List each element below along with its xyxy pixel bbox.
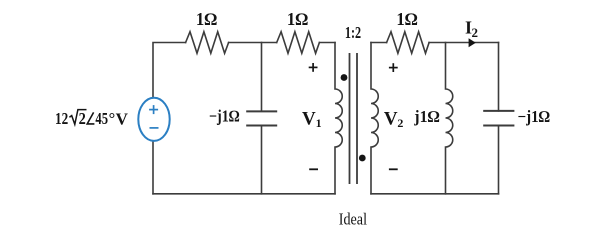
svg-text:2: 2 xyxy=(472,25,479,40)
svg-text:1Ω: 1Ω xyxy=(196,9,217,29)
transformer dot primary xyxy=(341,74,348,81)
svg-text:1Ω: 1Ω xyxy=(287,9,308,29)
label V2 minus xyxy=(389,168,398,170)
transformer primary winding xyxy=(335,43,342,194)
svg-text:2: 2 xyxy=(397,116,403,130)
label V1 plus xyxy=(309,63,318,72)
label source value 12 sqrt2 angle 45 V xyxy=(55,109,129,128)
svg-text:1Ω: 1Ω xyxy=(396,9,417,29)
svg-text:1:2: 1:2 xyxy=(345,23,361,42)
wire bottom right xyxy=(371,193,499,195)
wire R1 to R2 through node xyxy=(229,42,277,44)
wire capacitor C1 branch top xyxy=(261,43,263,112)
svg-text:2: 2 xyxy=(79,109,86,128)
transformer secondary winding xyxy=(371,43,378,194)
svg-text:j1Ω: j1Ω xyxy=(413,107,440,126)
voltage source minus xyxy=(150,127,159,129)
svg-text:V: V xyxy=(384,108,398,129)
svg-text:V: V xyxy=(116,109,129,128)
svg-text:12: 12 xyxy=(55,109,68,128)
current I2 arrowhead xyxy=(469,38,476,47)
radical sign xyxy=(69,110,86,125)
wire capacitor C2 branch top xyxy=(498,43,500,111)
voltage source VS ellipse xyxy=(138,98,169,141)
angle symbol xyxy=(87,112,94,124)
inductor L1 j1ohm branch xyxy=(446,43,453,194)
wire capacitor C2 branch bottom xyxy=(498,126,500,194)
resistor R2 1ohm zigzag xyxy=(277,32,320,54)
svg-text:°: ° xyxy=(109,109,116,128)
svg-text:V: V xyxy=(302,108,316,129)
voltage source plus xyxy=(149,105,158,114)
resistor R1 1ohm zigzag xyxy=(186,32,229,54)
svg-text:Ideal: Ideal xyxy=(339,209,367,228)
wire left vertical + top wire to R1 xyxy=(153,43,186,194)
capacitor C1 plates xyxy=(246,111,277,125)
capacitor C2 plates xyxy=(483,111,514,126)
label V1 minus xyxy=(309,168,318,170)
svg-text:−j1Ω: −j1Ω xyxy=(518,107,551,126)
wire R2 to primary top xyxy=(319,42,335,44)
svg-text:1: 1 xyxy=(316,116,322,130)
transformer dot secondary xyxy=(359,155,366,162)
transformer core lines xyxy=(350,53,358,184)
svg-text:45: 45 xyxy=(95,109,108,128)
wire bottom left xyxy=(153,193,335,195)
wire secondary top to R3 xyxy=(371,42,387,44)
svg-text:−j1Ω: −j1Ω xyxy=(209,107,240,126)
wire R3 to top-right corner xyxy=(429,42,498,44)
label V2 plus xyxy=(389,63,398,72)
resistor R3 1ohm zigzag xyxy=(387,32,430,54)
wire capacitor C1 branch bottom xyxy=(261,126,263,194)
